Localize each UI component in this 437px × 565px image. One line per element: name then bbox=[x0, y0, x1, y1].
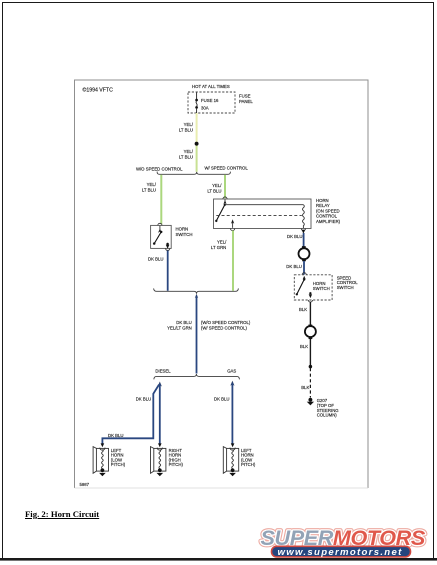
svg-text:AMPLIFIER): AMPLIFIER) bbox=[316, 219, 341, 224]
svg-text:W/ SPEED CONTROL: W/ SPEED CONTROL bbox=[205, 166, 249, 171]
svg-text:YEL/: YEL/ bbox=[184, 149, 194, 154]
svg-text:YEL/: YEL/ bbox=[212, 183, 222, 188]
svg-text:YEL/: YEL/ bbox=[184, 122, 194, 127]
svg-text:5987: 5987 bbox=[80, 482, 90, 487]
svg-text:DK BLU: DK BLU bbox=[176, 320, 192, 325]
svg-text:SWITCH: SWITCH bbox=[313, 286, 330, 291]
svg-text:PITCH): PITCH) bbox=[169, 462, 184, 467]
svg-text:SWITCH: SWITCH bbox=[176, 232, 193, 237]
svg-text:HORN: HORN bbox=[176, 227, 189, 232]
svg-text:W/O SPEED CONTROL: W/O SPEED CONTROL bbox=[136, 167, 183, 172]
svg-text:DK BLU: DK BLU bbox=[148, 257, 164, 262]
svg-text:GAS: GAS bbox=[227, 369, 236, 374]
svg-text:(W/ SPEED CONTROL): (W/ SPEED CONTROL) bbox=[201, 325, 248, 330]
svg-text:YEL/: YEL/ bbox=[217, 240, 227, 245]
svg-text:FUSE: FUSE bbox=[239, 94, 251, 99]
svg-text:BLK: BLK bbox=[299, 307, 307, 312]
svg-text:DK BLU: DK BLU bbox=[286, 264, 302, 269]
svg-text:DK BLU: DK BLU bbox=[287, 234, 303, 239]
svg-text:DK BLU: DK BLU bbox=[136, 396, 152, 401]
svg-text:SWITCH: SWITCH bbox=[337, 285, 354, 290]
svg-text:FUSE 16: FUSE 16 bbox=[201, 98, 219, 103]
svg-text:©1994 VFTC: ©1994 VFTC bbox=[83, 87, 114, 94]
svg-text:DIESEL: DIESEL bbox=[155, 369, 171, 374]
svg-text:LT BLU: LT BLU bbox=[207, 189, 221, 194]
svg-text:LT BLU: LT BLU bbox=[179, 128, 193, 133]
svg-text:LT BLU: LT BLU bbox=[142, 188, 156, 193]
svg-text:COLUMN): COLUMN) bbox=[317, 413, 338, 418]
svg-text:LT GRN: LT GRN bbox=[211, 245, 226, 250]
svg-text:PITCH): PITCH) bbox=[111, 462, 126, 467]
svg-text:PANEL: PANEL bbox=[239, 99, 253, 104]
svg-text:YEL/LT GRN: YEL/LT GRN bbox=[167, 325, 192, 330]
svg-text:DK BLU: DK BLU bbox=[214, 396, 230, 401]
svg-text:www.supermotors.net: www.supermotors.net bbox=[278, 547, 403, 558]
svg-text:30A: 30A bbox=[201, 106, 209, 111]
svg-text:DK BLU: DK BLU bbox=[108, 433, 124, 438]
svg-text:BLK: BLK bbox=[301, 385, 309, 390]
svg-text:PITCH): PITCH) bbox=[241, 462, 256, 467]
svg-text:(W/O SPEED CONTROL): (W/O SPEED CONTROL) bbox=[201, 320, 251, 325]
svg-text:BLK: BLK bbox=[300, 344, 308, 349]
svg-text:YEL/: YEL/ bbox=[147, 182, 157, 187]
svg-text:HOT AT ALL TIMES: HOT AT ALL TIMES bbox=[192, 84, 230, 89]
svg-text:LT BLU: LT BLU bbox=[179, 155, 193, 160]
